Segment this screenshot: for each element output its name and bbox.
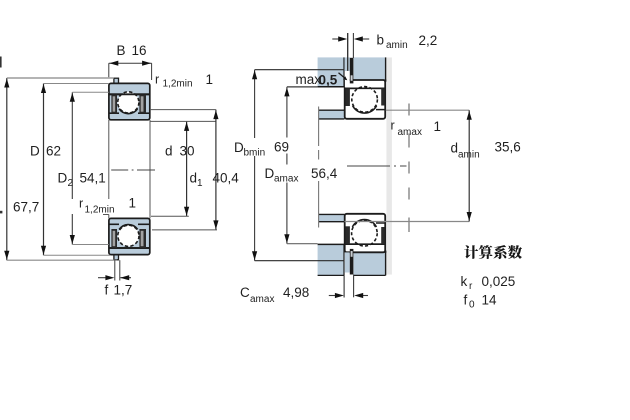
svg-text:amax: amax: [274, 174, 298, 185]
svg-text:0,5: 0,5: [319, 73, 338, 88]
ball: [352, 220, 378, 246]
label stub to face: [103, 214, 109, 216]
ball top: [118, 92, 139, 113]
RIGHT VIEW: mounted bearing: [234, 33, 521, 306]
grey background column: [386, 57, 392, 274]
outer+inner ring block: [109, 83, 150, 119]
svg-text:4,98: 4,98: [283, 285, 309, 300]
extension top (bore): [150, 120, 216, 122]
snap ring bar top: [350, 58, 354, 84]
extension top (d1): [150, 109, 216, 111]
snap ring bottom: blue bridge left of bar: [345, 252, 350, 272]
housing block bottom-right: [354, 252, 386, 275]
white notch: [345, 71, 350, 87]
seal right: [381, 89, 384, 106]
svg-text:amin: amin: [386, 40, 408, 51]
svg-text:56,4: 56,4: [311, 166, 338, 181]
svg-text:14: 14: [482, 293, 498, 308]
svg-text:2: 2: [68, 178, 74, 189]
seal right: [139, 95, 146, 114]
inner ring top line: [110, 112, 120, 114]
arrows C_amax: [329, 295, 335, 297]
dimension d_amin: vertical line: [468, 110, 470, 221]
snap ring top: blue bridge over slot: [345, 57, 350, 71]
extension bottom (d1): [152, 229, 217, 231]
svg-text:C: C: [240, 285, 250, 300]
top section of bearing: [109, 78, 150, 120]
shaft shoulder strip top: [319, 110, 345, 119]
snap ring tab bottom: [114, 254, 119, 260]
shaft shoulder strip bottom: [319, 214, 345, 221]
raceway arc over ball bottom: [119, 225, 137, 230]
inner ring bottom line: [110, 223, 120, 225]
svg-text:b: b: [377, 33, 385, 48]
raceway arc under ball: [119, 109, 137, 114]
seal recess line top: [110, 93, 150, 95]
label 计算系数: [464, 245, 478, 259]
housing shoulder line D_bmin bottom: [255, 260, 345, 262]
r_amax / d_amin top reference line: [386, 109, 469, 111]
svg-text:69: 69: [274, 140, 289, 155]
svg-text:D: D: [265, 166, 275, 181]
raceway: [352, 220, 376, 227]
bearing top section (right view): [345, 57, 386, 118]
dimension D_amax: vertical line: [286, 87, 288, 138]
svg-text:16: 16: [132, 43, 147, 58]
svg-text:r: r: [469, 281, 473, 292]
extension line top (snap ring OD): [7, 77, 114, 79]
face line left: [108, 120, 110, 199]
seal right bottom: [139, 229, 146, 248]
seal recess line bottom: [110, 247, 150, 249]
centerline right view: [347, 165, 407, 167]
svg-text:35,6: 35,6: [495, 140, 521, 155]
cut-off label sliver: [0, 57, 2, 68]
svg-text:2,2: 2,2: [419, 33, 438, 48]
housing block bottom-left: [318, 245, 345, 275]
svg-text:1: 1: [197, 178, 203, 189]
housing block top-left: [318, 57, 345, 86]
svg-text:D: D: [234, 140, 244, 155]
raceway: [353, 106, 377, 113]
housing shoulder line D_bmin top: [255, 69, 345, 71]
svg-text:d: d: [451, 141, 459, 156]
dimension f 1,7: [114, 260, 116, 280]
bottom section of bearing: [109, 218, 150, 259]
dimension D_bmin: vertical line: [254, 70, 256, 138]
extension line bottom: [7, 259, 117, 261]
bearing bottom section (right view): [345, 214, 386, 275]
svg-text:r: r: [79, 197, 83, 211]
svg-text:0: 0: [469, 300, 475, 311]
face line right: [149, 120, 151, 218]
svg-text:d: d: [190, 171, 198, 186]
shaft end line: [318, 107, 320, 147]
dimension 67,7: vertical line: [6, 78, 8, 260]
svg-text:d: d: [165, 144, 173, 159]
housing block top-right: [354, 57, 386, 79]
seal left: [345, 89, 350, 107]
svg-text:1: 1: [129, 196, 137, 211]
dimension B line + arrows: [109, 62, 152, 64]
svg-text:amax: amax: [398, 127, 422, 138]
seal left bottom: [345, 226, 350, 244]
ball: [352, 87, 378, 113]
dimension d1 40,4: vertical line: [215, 110, 217, 230]
svg-text:1: 1: [434, 119, 442, 134]
ball bottom: [118, 225, 139, 246]
svg-text:40,4: 40,4: [213, 171, 240, 186]
dimension d 30: vertical line: [186, 121, 188, 216]
svg-text:k: k: [461, 274, 468, 289]
svg-text:0,025: 0,025: [482, 274, 516, 289]
snap ring bar bottom (extends through housing): [350, 249, 354, 275]
svg-text:62: 62: [46, 144, 61, 159]
svg-text:bmin: bmin: [244, 148, 266, 159]
dimension B: extension lines: [108, 63, 110, 77]
svg-text:amin: amin: [458, 150, 480, 161]
svg-text:max: max: [296, 72, 322, 87]
d_amin bottom reference line: [345, 221, 470, 223]
arrows b_amin: [332, 38, 338, 40]
extension bottom (bore): [151, 215, 189, 217]
dimension b_amin: extension lines: [347, 33, 349, 71]
TEXT BLOCK: calculation factors: [461, 245, 523, 310]
snap ring tab top: [114, 78, 119, 84]
dimension C_amax: extension lines: [343, 276, 345, 298]
seal left: [111, 95, 117, 114]
svg-text:1,2min: 1,2min: [163, 79, 193, 90]
centerline left view: [111, 169, 155, 171]
svg-text:54,1: 54,1: [80, 171, 106, 186]
svg-text:amax: amax: [250, 294, 274, 305]
seal right bottom: [381, 227, 384, 244]
vertical dash-dot line at shaft plane: [408, 104, 410, 233]
dimension D 62: vertical line: [43, 84, 45, 256]
svg-text:1: 1: [206, 72, 214, 87]
dimension D2 54,1: vertical line: [71, 92, 73, 199]
svg-text:67,7: 67,7: [13, 200, 39, 215]
svg-text:r: r: [155, 73, 159, 87]
svg-text:D: D: [30, 144, 40, 159]
svg-text:D: D: [58, 171, 68, 186]
svg-text:30: 30: [180, 144, 195, 159]
LEFT VIEW: bearing cross-section: [0, 43, 239, 298]
outer+inner ring block bottom: [109, 218, 150, 254]
svg-text:r: r: [391, 119, 395, 133]
svg-text:f: f: [105, 283, 109, 298]
svg-text:1,7: 1,7: [114, 283, 133, 298]
svg-text:f: f: [464, 293, 468, 308]
seal left bottom: [111, 229, 117, 248]
svg-text:1,2min: 1,2min: [85, 205, 115, 216]
svg-text:B: B: [117, 43, 126, 58]
